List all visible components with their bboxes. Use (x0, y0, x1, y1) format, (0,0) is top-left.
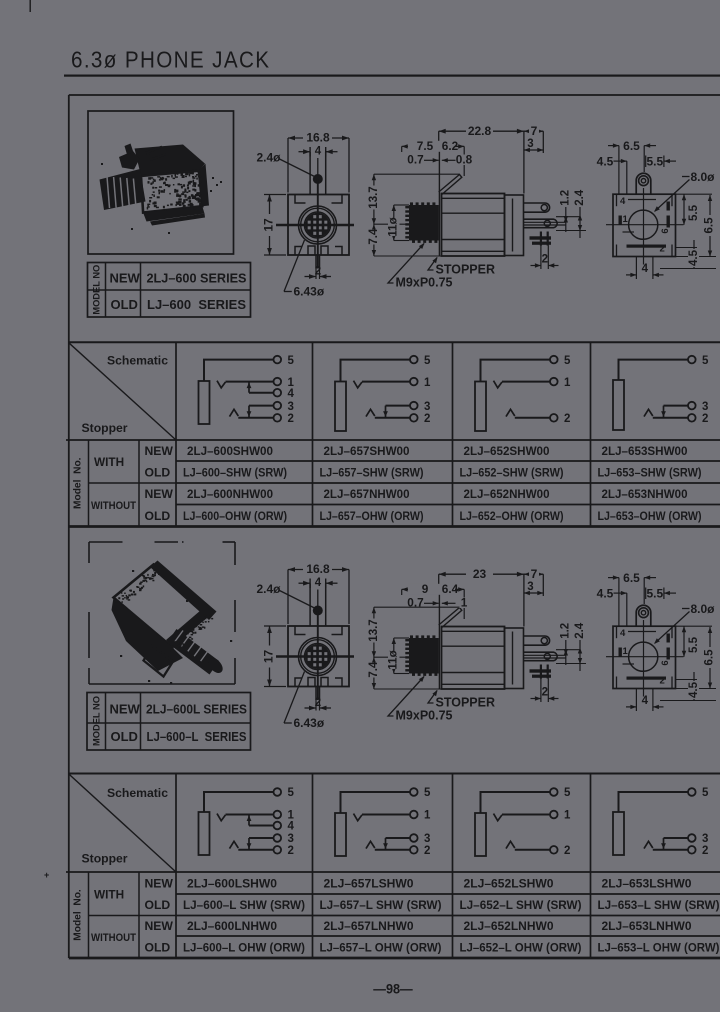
svg-text:5.5: 5.5 (688, 204, 700, 221)
svg-text:7: 7 (531, 567, 538, 581)
svg-text:2: 2 (564, 845, 570, 857)
svg-text:8.0ø: 8.0ø (691, 602, 716, 616)
front view: bottom pins (315, 255, 317, 268)
svg-text:1: 1 (424, 377, 431, 389)
front view: mounting-face square body (288, 195, 349, 256)
svg-text:LJ–600–SHW (SRW): LJ–600–SHW (SRW) (183, 465, 287, 479)
side view: lower terminals (solid) (530, 669, 552, 672)
dim 2 (pin) (315, 700, 317, 711)
dim 17 (height) (264, 625, 286, 627)
svg-text:OLD: OLD (145, 465, 171, 479)
wire to terminal 5 (619, 792, 689, 812)
terminal 3 (688, 402, 696, 410)
svg-text:4.5: 4.5 (597, 154, 614, 168)
3D pictorial frame (section 1) (88, 111, 234, 254)
label 8.0 dia with leader (682, 176, 690, 178)
sleeve bar (199, 812, 210, 855)
3D pictorial of phone jack (section 2, angled) (112, 561, 233, 685)
wire to terminal 5 (619, 360, 689, 380)
terminal 1 (550, 378, 558, 386)
svg-text:2: 2 (660, 676, 665, 687)
svg-text:6.4: 6.4 (442, 582, 459, 596)
svg-text:3: 3 (424, 833, 430, 845)
terminal 2 (688, 846, 696, 854)
dim 2 (pin) (315, 268, 317, 279)
front view: center lines (267, 655, 355, 657)
NC contact to terminal 3 (248, 838, 250, 850)
svg-text:OLD: OLD (145, 898, 171, 912)
svg-text:LJ–657–OHW (ORW): LJ–657–OHW (ORW) (320, 509, 424, 523)
terminal 5 (550, 356, 558, 364)
svg-text:M9xP0.75: M9xP0.75 (396, 709, 453, 723)
dims 5.5 / 6.5 / 4.5 (right side) (676, 193, 713, 195)
side view section 2 (368, 567, 586, 723)
svg-text:NEW: NEW (145, 487, 174, 501)
front view: 2.4 dia hole (filled) (314, 175, 323, 184)
end view: 8.0 dia circle (629, 210, 658, 239)
svg-text:2: 2 (660, 244, 665, 255)
svg-text:13.7: 13.7 (368, 186, 380, 208)
svg-text:2: 2 (424, 845, 430, 857)
svg-text:6.43ø: 6.43ø (294, 285, 325, 299)
svg-text:8.0ø: 8.0ø (691, 170, 716, 184)
svg-text:Stopper: Stopper (82, 421, 128, 435)
tip contact arm (217, 814, 226, 821)
wire to terminal 5 (204, 792, 274, 812)
svg-text:5.5: 5.5 (688, 636, 700, 653)
svg-text:23: 23 (473, 567, 487, 581)
dim 22.8 / 7 (top) (438, 131, 440, 146)
model number table (section 2) (87, 693, 251, 751)
front view: top lug tab (309, 584, 311, 627)
svg-text:6.5: 6.5 (623, 571, 640, 585)
end view: edge ticks (solid) (619, 216, 622, 225)
svg-text:0.8: 0.8 (456, 153, 473, 167)
svg-text:5: 5 (564, 355, 571, 367)
svg-text:4: 4 (642, 695, 649, 707)
dims 13.7 / 7.4 / 11dia (left) (373, 607, 375, 689)
svg-text:M9xP0.75: M9xP0.75 (396, 276, 453, 290)
terminal 5 (410, 788, 418, 796)
end view: rear square body (613, 194, 676, 256)
wire to terminal 1 (226, 814, 274, 816)
terminal 2 (274, 846, 282, 854)
svg-text:1: 1 (623, 646, 629, 657)
NC contact to terminal 4 (248, 815, 250, 826)
svg-text:LJ–653–OHW (ORW): LJ–653–OHW (ORW) (598, 509, 702, 523)
end view: bottom solid bar (627, 677, 667, 680)
svg-text:LJ–657–SHW (SRW): LJ–657–SHW (SRW) (320, 465, 424, 479)
terminal 2 (688, 414, 696, 422)
dim 16.8 (287, 138, 289, 193)
svg-text:LJ–600 SERIES: LJ–600 SERIES (147, 297, 246, 312)
front view: top inner step lines (295, 195, 306, 204)
svg-text:2: 2 (424, 413, 430, 425)
front view: 2.4 dia hole (filled) (314, 606, 323, 615)
svg-text:16.8: 16.8 (306, 562, 330, 576)
terminal 2 (550, 414, 558, 422)
svg-text:6.43ø: 6.43ø (294, 716, 325, 730)
sleeve bar (335, 382, 346, 432)
svg-text:LJ–657–L OHW (ORW): LJ–657–L OHW (ORW) (320, 940, 442, 954)
svg-text:2LJ–657SHW00: 2LJ–657SHW00 (324, 444, 410, 458)
svg-text:OLD: OLD (111, 297, 138, 312)
svg-text:5: 5 (424, 787, 431, 799)
svg-text:2LJ–657LSHW0: 2LJ–657LSHW0 (324, 876, 414, 890)
dims 13.7 / 7.4 / 11dia (left) (373, 174, 375, 256)
dim 6.5 (top) (618, 146, 620, 194)
svg-text:WITH: WITH (94, 455, 124, 469)
dims 5.5 / 6.5 / 4.5 (right side) (676, 625, 713, 627)
end view: edge ticks (solid) (619, 648, 622, 657)
svg-text:11ø: 11ø (388, 217, 400, 236)
svg-text:MODEL NO: MODEL NO (92, 696, 102, 746)
sleeve bar (335, 813, 346, 856)
svg-text:NEW: NEW (145, 876, 174, 890)
svg-text:2LJ–600L SERIES: 2LJ–600L SERIES (146, 702, 247, 717)
wire to terminal 2 (515, 849, 550, 851)
terminal 4 (274, 389, 282, 397)
sleeve bar (199, 381, 210, 424)
NC contact to terminal 4 (248, 382, 250, 393)
wire to terminal 5 (481, 360, 551, 382)
terminal 5 (274, 788, 282, 796)
svg-text:4: 4 (315, 146, 322, 158)
terminal 3 (410, 834, 418, 842)
end view: center lines (606, 224, 684, 226)
NC contact to terminal 3 (385, 406, 387, 418)
svg-text:2LJ–653SHW00: 2LJ–653SHW00 (602, 444, 688, 458)
svg-text:3: 3 (288, 401, 294, 413)
svg-text:1: 1 (564, 377, 571, 389)
svg-text:2: 2 (288, 845, 294, 857)
svg-text:9: 9 (422, 582, 429, 596)
ring contact arm (366, 409, 375, 416)
svg-text:Schematic: Schematic (107, 786, 168, 800)
svg-text:LJ–600–L OHW (ORW): LJ–600–L OHW (ORW) (183, 940, 305, 954)
svg-text:5.5: 5.5 (646, 586, 663, 600)
svg-text:MODEL NO: MODEL NO (92, 265, 102, 315)
left stub columns (88, 872, 90, 958)
end view: bottom solid bar (627, 245, 667, 248)
svg-text:LJ–600–L SHW (SRW): LJ–600–L SHW (SRW) (183, 898, 305, 912)
svg-text:4: 4 (620, 196, 626, 207)
svg-text:17: 17 (261, 650, 275, 664)
svg-text:5: 5 (702, 355, 709, 367)
dim 5.5 (top-right) (645, 588, 647, 600)
model number table (section 1) (88, 263, 251, 318)
page frame: top rule and continuous left border (69, 94, 720, 96)
wire to terminal 2 (238, 849, 273, 851)
svg-text:5: 5 (702, 787, 709, 799)
svg-text:6: 6 (660, 660, 671, 665)
terminal 1 (550, 811, 558, 819)
terminal 3 (274, 402, 282, 410)
svg-text:0.7: 0.7 (407, 153, 424, 167)
side view: threaded bushing (solid) (409, 205, 439, 241)
svg-text:NEW: NEW (110, 702, 141, 717)
svg-text:STOPPER: STOPPER (436, 696, 496, 710)
label 6.43 dia with leader (284, 240, 305, 292)
front view: center lines (267, 224, 355, 226)
front view section 1 (257, 131, 355, 299)
dim 5.5 (top-right) (645, 156, 647, 168)
terminal 1 (274, 811, 282, 819)
ring contact arm (366, 841, 375, 848)
tip contact arm (494, 381, 503, 388)
ring contact arm (644, 409, 653, 416)
svg-text:5: 5 (564, 787, 571, 799)
terminal 2 (410, 846, 418, 854)
svg-text:6.3ø PHONE JACK: 6.3ø PHONE JACK (71, 46, 269, 73)
3D pictorial dashed frame (section 2) (89, 541, 123, 543)
ring contact arm (230, 841, 239, 848)
dim 3 (524, 592, 543, 594)
svg-text:2: 2 (702, 845, 708, 857)
side view: middle terminals with hole (524, 219, 558, 228)
svg-text:4.5: 4.5 (688, 249, 700, 266)
terminal 4 (274, 822, 282, 830)
table frame (69, 773, 720, 775)
end view: 8.0 dia circle (629, 642, 658, 671)
front view section 2 (257, 562, 355, 730)
svg-text:13.7: 13.7 (368, 619, 380, 641)
svg-text:2.4: 2.4 (574, 189, 586, 206)
svg-text:4: 4 (288, 388, 295, 400)
end view: corner tabs (616, 194, 618, 206)
3D pictorial of phone jack (section 1) (100, 144, 223, 235)
side view: body housing (442, 627, 505, 690)
front view: top lug tab (309, 152, 311, 195)
dim 6.5 (top) (618, 578, 620, 626)
front view: bottom terminal tabs (308, 678, 315, 687)
front view: bottom pins (315, 687, 317, 700)
terminal 3 (274, 834, 282, 842)
svg-text:7: 7 (531, 124, 538, 138)
svg-text:2LJ–657NHW00: 2LJ–657NHW00 (324, 487, 410, 501)
wire to terminal 2 (515, 417, 550, 419)
svg-text:Schematic: Schematic (107, 353, 168, 367)
svg-text:—98—: —98— (373, 982, 413, 997)
svg-text:WITH: WITH (94, 887, 124, 901)
svg-text:LJ–653–L OHW (ORW): LJ–653–L OHW (ORW) (598, 940, 720, 954)
wire to terminal 2 (653, 417, 688, 419)
svg-text:2: 2 (564, 413, 570, 425)
side view: terminal T5 (top, with hole) (524, 636, 550, 645)
svg-text:2LJ–653LNHW0: 2LJ–653LNHW0 (602, 919, 692, 933)
side view: panel washer line (438, 589, 440, 689)
NC contact to terminal 3 (663, 406, 665, 418)
side view: panel washer line (438, 146, 440, 256)
sleeve bar (475, 382, 486, 432)
svg-text:1: 1 (461, 596, 468, 610)
svg-text:3: 3 (527, 138, 533, 150)
dim 16.8 (287, 570, 289, 625)
tip contact arm (494, 814, 503, 821)
svg-text:11ø: 11ø (388, 650, 400, 669)
front view: bushing circles (299, 638, 337, 676)
svg-text:2LJ–652LSHW0: 2LJ–652LSHW0 (464, 876, 554, 890)
svg-text:Model No.: Model No. (73, 457, 84, 509)
front view: mounting-face square body (288, 626, 349, 687)
svg-text:Stopper: Stopper (82, 852, 128, 866)
svg-text:3: 3 (702, 401, 708, 413)
svg-text:1.2: 1.2 (560, 623, 572, 639)
svg-text:2: 2 (288, 413, 294, 425)
svg-text:6.2: 6.2 (442, 139, 459, 153)
side view section 1 (368, 124, 586, 290)
terminal 5 (688, 356, 696, 364)
svg-text:4: 4 (315, 577, 322, 589)
side view: body housing (442, 194, 505, 257)
label 8.0 dia with leader (682, 608, 690, 610)
svg-text:LJ–653–SHW (SRW): LJ–653–SHW (SRW) (598, 465, 702, 479)
wire to terminal 2 (238, 417, 273, 419)
wire to terminal 1 (502, 381, 550, 383)
side view: solder lug (diagonal) (439, 608, 462, 628)
svg-text:1: 1 (623, 214, 629, 225)
svg-text:2: 2 (315, 266, 321, 278)
svg-text:5: 5 (424, 355, 431, 367)
svg-text:2LJ–600LNHW0: 2LJ–600LNHW0 (187, 919, 277, 933)
end view section 2 (597, 571, 716, 711)
terminal 2 (550, 846, 558, 854)
wire to terminal 2 (375, 417, 410, 419)
svg-text:2.4ø: 2.4ø (257, 582, 282, 596)
svg-text:STOPPER: STOPPER (436, 263, 496, 277)
wire to terminal 2 (375, 849, 410, 851)
header diagonal (69, 774, 176, 872)
terminal 2 (410, 414, 418, 422)
svg-text:1.2: 1.2 (560, 190, 572, 206)
svg-text:2LJ–600LSHW0: 2LJ–600LSHW0 (187, 876, 277, 890)
wire to terminal 5 (341, 792, 411, 813)
svg-text:2LJ–657LNHW0: 2LJ–657LNHW0 (324, 919, 414, 933)
svg-text:2LJ–652SHW00: 2LJ–652SHW00 (464, 444, 550, 458)
terminal 3 (688, 834, 696, 842)
svg-text:LJ–657–L SHW (SRW): LJ–657–L SHW (SRW) (320, 898, 442, 912)
svg-text:2LJ–600NHW00: 2LJ–600NHW00 (187, 487, 273, 501)
svg-text:22.8: 22.8 (468, 124, 492, 138)
end view: rear square body (613, 626, 676, 688)
sleeve bar (613, 812, 624, 855)
ring contact arm (230, 409, 239, 416)
svg-text:2LJ–652LNHW0: 2LJ–652LNHW0 (464, 919, 554, 933)
svg-text:5.5: 5.5 (646, 154, 663, 168)
NC contact to terminal 3 (385, 838, 387, 850)
side view: lower terminals (solid) (530, 236, 552, 239)
side view: terminal T5 (top, with hole) (524, 203, 550, 212)
side view: solder lug (diagonal) (439, 175, 462, 195)
svg-text:2.4ø: 2.4ø (257, 151, 282, 165)
terminal 2 (274, 414, 282, 422)
svg-text:2: 2 (542, 254, 548, 266)
end view: top lug with hole (636, 605, 651, 626)
side view: middle terminals with hole (524, 652, 558, 661)
svg-text:LJ–652–SHW (SRW): LJ–652–SHW (SRW) (460, 465, 564, 479)
terminal 5 (550, 788, 558, 796)
ring contact arm (506, 409, 515, 416)
svg-text:2: 2 (702, 413, 708, 425)
end view: top lug with hole (636, 173, 651, 194)
end view: center lines (606, 656, 684, 658)
terminal 1 (410, 378, 418, 386)
svg-text:6: 6 (660, 228, 671, 233)
svg-text:6.5: 6.5 (704, 217, 716, 234)
svg-text:2: 2 (315, 697, 321, 709)
tip contact arm (217, 381, 226, 388)
terminal 1 (410, 811, 418, 819)
svg-text:6.5: 6.5 (623, 139, 640, 153)
svg-text:2.4: 2.4 (574, 622, 586, 639)
wire to terminal 1 (226, 381, 274, 383)
dims 7.5 / 6.2 (401, 146, 403, 152)
side view: rear flange blocks (505, 195, 524, 256)
sleeve bar (613, 380, 624, 430)
svg-text:NEW: NEW (110, 270, 141, 285)
terminal 5 (688, 788, 696, 796)
wire to terminal 5 (341, 360, 411, 382)
svg-text:Model No.: Model No. (73, 889, 84, 941)
svg-text:3: 3 (288, 833, 294, 845)
front view: bottom terminal tabs (308, 246, 315, 255)
dim 4 (lug width) (309, 147, 311, 157)
dims 7.5 / 6.2 (401, 589, 403, 595)
wire to terminal 5 (204, 360, 274, 381)
svg-text:3: 3 (527, 581, 533, 593)
terminal 5 (274, 356, 282, 364)
wire to terminal 1 (502, 814, 550, 816)
wire to terminal 5 (481, 792, 551, 813)
svg-text:LJ–653–L SHW (SRW): LJ–653–L SHW (SRW) (598, 898, 720, 912)
front view: top inner step lines (295, 626, 306, 635)
svg-text:OLD: OLD (145, 509, 171, 523)
terminal 3 (410, 402, 418, 410)
svg-text:16.8: 16.8 (306, 131, 330, 145)
svg-text:+: + (44, 870, 49, 880)
tip contact arm (354, 381, 363, 388)
svg-text:NEW: NEW (145, 444, 174, 458)
svg-text:7.5: 7.5 (417, 139, 434, 153)
dim 2 (terminal spacing) (540, 679, 542, 703)
ring contact arm (644, 841, 653, 848)
svg-text:2LJ–653LSHW0: 2LJ–653LSHW0 (602, 876, 692, 890)
svg-text:2: 2 (542, 687, 548, 699)
svg-text:4: 4 (288, 821, 295, 833)
svg-text:4: 4 (642, 263, 649, 275)
svg-text:2LJ–653NHW00: 2LJ–653NHW00 (602, 487, 688, 501)
svg-text:WITHOUT: WITHOUT (91, 500, 136, 512)
NC contact to terminal 3 (663, 838, 665, 850)
tip contact arm (354, 814, 363, 821)
terminal 5 (410, 356, 418, 364)
svg-text:LJ–652–L OHW (ORW): LJ–652–L OHW (ORW) (460, 940, 582, 954)
svg-text:4.5: 4.5 (597, 586, 614, 600)
svg-text:LJ–652–L SHW (SRW): LJ–652–L SHW (SRW) (460, 898, 582, 912)
left stub columns (88, 440, 90, 527)
svg-text:7.4: 7.4 (368, 228, 380, 245)
svg-text:OLD: OLD (111, 729, 138, 744)
side view: threaded bushing (solid) (409, 638, 439, 674)
wire to terminal 2 (653, 849, 688, 851)
svg-text:7.4: 7.4 (368, 661, 380, 678)
svg-text:2LJ–652NHW00: 2LJ–652NHW00 (464, 487, 550, 501)
svg-text:LJ–652–OHW (ORW): LJ–652–OHW (ORW) (460, 509, 564, 523)
svg-text:2LJ–600SHW00: 2LJ–600SHW00 (187, 444, 273, 458)
svg-text:5: 5 (288, 787, 295, 799)
svg-text:LJ–600–L SERIES: LJ–600–L SERIES (147, 729, 247, 744)
side view: rear flange blocks (505, 628, 524, 689)
